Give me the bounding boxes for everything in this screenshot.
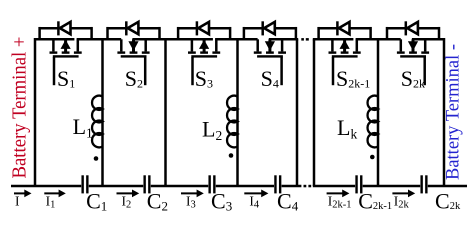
capacitor C2k-1 (battery cell) bbox=[355, 175, 362, 193]
wire: bypass loop of S1 bbox=[40, 27, 92, 39]
label of S2 bbox=[125, 66, 143, 91]
label of current I2k-1 bbox=[328, 194, 352, 211]
transistor S3 (MOSFET) bbox=[188, 39, 220, 85]
label of current I bbox=[15, 194, 20, 209]
transistor S4 (MOSFET) bbox=[254, 39, 286, 85]
label of current I1 bbox=[46, 194, 56, 211]
wire: bottom battery-string rail segment 3 bbox=[151, 185, 208, 188]
wire: top rail segment 3 bbox=[132, 38, 213, 41]
wire: vertical link right of S4 down to rail after C4 bbox=[296, 39, 299, 186]
inductor Lk bbox=[368, 96, 378, 148]
label of L2 bbox=[202, 117, 222, 143]
node: current arrow I2k-1 bbox=[327, 190, 350, 198]
capacitor C2 (battery cell) bbox=[143, 175, 150, 193]
label of current I2 bbox=[122, 194, 132, 211]
wire: bypass loop of S3 bbox=[178, 27, 230, 39]
transistor S2 (MOSFET) bbox=[117, 39, 149, 85]
svg-text:Battery Terminal -: Battery Terminal - bbox=[444, 44, 464, 180]
node: polarity dot of L1 bbox=[94, 156, 99, 161]
wire: bypass loop of S2k bbox=[387, 27, 439, 39]
inductor L1 bbox=[92, 96, 102, 148]
wire: bottom battery-string rail segment 5 bbox=[282, 185, 302, 188]
transistor S2k (MOSFET) bbox=[397, 39, 429, 85]
node: Battery Terminal - label (right, blue) bbox=[444, 44, 464, 180]
node: bottom rail break dots bbox=[304, 185, 312, 188]
wire: bypass loop of S2 bbox=[108, 27, 160, 39]
wire: left vertical rail (battery + side) bbox=[34, 38, 37, 186]
wire: right vertical rail (battery - side) bbox=[443, 38, 446, 186]
label of C4 bbox=[277, 189, 299, 214]
label of C3 bbox=[211, 189, 232, 214]
label of current I3 bbox=[186, 194, 196, 211]
wire: top rail segment 2 bbox=[77, 38, 122, 41]
wire: vertical branch through L2 bbox=[236, 39, 239, 186]
label of L1 bbox=[73, 114, 93, 140]
wire: vertical link left of S2k-1 down to rail before C2k-1 bbox=[313, 39, 316, 186]
svg-text:I: I bbox=[15, 194, 20, 209]
wire: top rail segment 4 bbox=[215, 38, 258, 41]
node: current arrow I bbox=[14, 190, 32, 198]
node: current arrow I2 bbox=[117, 190, 140, 198]
wire: vertical branch through L1 bbox=[101, 39, 104, 186]
wire: top rail segment 6 bbox=[313, 38, 354, 41]
capacitor C1 (battery cell) bbox=[81, 175, 88, 193]
capacitor C4 (battery cell) bbox=[274, 175, 281, 193]
node: Battery Terminal + label (left, red) bbox=[10, 37, 31, 179]
label of C2k-1 bbox=[358, 189, 392, 214]
svg-text:Battery Terminal +: Battery Terminal + bbox=[10, 37, 31, 179]
transistor S1 (MOSFET) bbox=[50, 39, 82, 85]
node: polarity dot of L2 bbox=[229, 153, 234, 158]
node: current arrow I2k bbox=[392, 190, 415, 198]
label of S4 bbox=[261, 66, 279, 91]
node: top rail break dots bbox=[301, 38, 309, 41]
wire: vertical link S2-S3 midpoint to C2-C3 junction bbox=[164, 39, 167, 186]
wire: bypass loop of S4 bbox=[244, 27, 296, 39]
transistor S2k-1 (MOSFET) bbox=[329, 39, 361, 85]
wire: top rail segment 1 bbox=[35, 38, 74, 41]
node: current arrow I3 bbox=[181, 190, 204, 198]
wire: bottom battery-string rail segment 2 bbox=[89, 185, 143, 188]
diode D1 (antiparallel of S1) bbox=[57, 21, 70, 35]
wire: top rail segment 7 bbox=[356, 38, 401, 41]
label of S3 bbox=[195, 66, 213, 91]
label of S2k bbox=[401, 66, 425, 91]
wire: bottom battery-string rail segment 8 bbox=[428, 185, 467, 188]
label of Lk bbox=[337, 115, 357, 141]
wire: top rail segment 8 bbox=[412, 38, 444, 41]
wire: top rail segment 5 bbox=[269, 38, 298, 41]
diode D4 (antiparallel of S4) bbox=[261, 21, 274, 35]
wire: bottom battery-string rail segment 7 bbox=[363, 185, 421, 188]
wire: bottom battery-string rail segment 6 bbox=[313, 185, 355, 188]
node: polarity dot of Lk bbox=[370, 155, 375, 160]
capacitor C3 (battery cell) bbox=[208, 175, 215, 193]
label of current I4 bbox=[249, 194, 260, 211]
diode D2k-1 (antiparallel of S2k-1) bbox=[336, 21, 349, 35]
label of C2 bbox=[147, 189, 168, 214]
capacitor C2k (battery cell) bbox=[420, 175, 427, 193]
label of C2k bbox=[435, 189, 461, 214]
label of S1 bbox=[57, 66, 75, 91]
wire: vertical branch through Lk bbox=[377, 39, 380, 186]
node: current arrow I1 bbox=[44, 190, 66, 198]
label of S2k-1 bbox=[336, 66, 370, 91]
diode D2k (antiparallel of S2k) bbox=[405, 21, 418, 35]
wire: bottom battery-string rail segment 1 bbox=[11, 185, 81, 188]
label of C1 bbox=[86, 189, 107, 214]
wire: bypass loop of S2k-1 bbox=[319, 27, 371, 39]
diode D3 (antiparallel of S3) bbox=[196, 21, 209, 35]
diode D2 (antiparallel of S2) bbox=[125, 21, 138, 35]
label of current I2k bbox=[394, 194, 410, 211]
inductor L2 bbox=[227, 96, 237, 148]
node: current arrow I4 bbox=[244, 190, 268, 198]
wire: bottom battery-string rail segment 4 bbox=[216, 185, 274, 188]
